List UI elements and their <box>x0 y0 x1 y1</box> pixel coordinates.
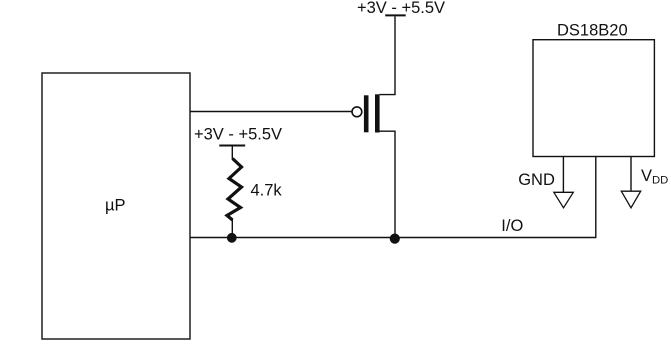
wire: DQ middle pin down to I/O bus <box>595 157 597 238</box>
power symbol bar (resistor supply) <box>219 145 245 147</box>
wire: Q1 drain lead to supply rail <box>380 17 396 95</box>
svg-text:GND: GND <box>518 171 555 189</box>
resistor R1 4.7k zigzag <box>227 159 242 221</box>
wire: VDD pin <box>630 157 632 192</box>
svg-text:DS18B20: DS18B20 <box>557 22 628 40</box>
junction node at resistor <box>227 233 237 243</box>
wire: resistor bottom to junction <box>231 219 233 238</box>
svg-text:+3V - +5.5V: +3V - +5.5V <box>357 0 445 17</box>
wire: uP gate output to MOSFET bubble <box>190 111 352 113</box>
microprocessor box uP <box>42 73 190 339</box>
svg-text:+3V - +5.5V: +3V - +5.5V <box>194 126 282 144</box>
wire: supply bar to resistor top <box>231 146 233 159</box>
svg-text:I/O: I/O <box>501 217 523 235</box>
DS18B20 box <box>533 40 654 157</box>
VDD pin arrow <box>621 191 640 208</box>
junction node at MOSFET source <box>390 234 400 244</box>
svg-text:4.7k: 4.7k <box>251 182 283 200</box>
wire: I/O bus horizontal <box>190 237 596 239</box>
GND pin arrow <box>554 192 574 208</box>
transistor Q1 channel bar <box>375 94 380 132</box>
wire: Q1 source lead down to I/O bus <box>380 131 396 237</box>
wire: GND pin <box>562 157 564 193</box>
svg-text:µP: µP <box>105 197 126 215</box>
transistor Q1 (P-channel MOSFET) gate bubble <box>352 107 362 117</box>
transistor Q1 gate bar <box>364 95 369 132</box>
power symbol bar (top supply) <box>385 14 406 16</box>
